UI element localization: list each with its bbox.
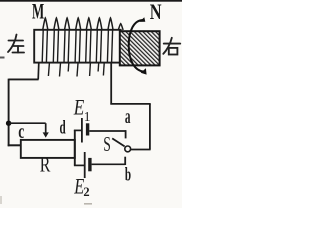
coil M core (rectangle) <box>34 30 121 63</box>
label 左 (left) <box>8 35 24 53</box>
scan smudges <box>84 203 92 205</box>
svg-text:N: N <box>150 0 162 24</box>
label 右 (right) <box>163 38 180 55</box>
svg-text:2: 2 <box>83 185 89 199</box>
contact a stub <box>125 130 127 138</box>
svg-text:b: b <box>125 165 131 186</box>
svg-text:S: S <box>103 132 111 156</box>
svg-text:R: R <box>40 153 51 177</box>
wire: bus from d up to E1 and down to E2 <box>74 130 76 166</box>
coil M winding stubs below core <box>48 63 104 77</box>
wire: bus to E2 left plate <box>74 164 84 166</box>
wire: coil M left end down <box>37 63 40 80</box>
wire: to rheostat left terminal c <box>8 144 21 146</box>
battery E1 <box>82 118 89 143</box>
wire: left vertical run <box>8 79 10 147</box>
svg-text:M: M <box>32 0 44 24</box>
svg-text:c: c <box>18 121 24 143</box>
battery E2 <box>85 152 92 178</box>
wire: E1 to contact a <box>89 130 126 132</box>
svg-text:a: a <box>125 106 131 128</box>
wire: right vertical riser <box>149 104 151 150</box>
wire: wiper feed horizontal <box>9 122 46 124</box>
coil N block (hatched) <box>120 31 160 65</box>
svg-text:d: d <box>60 119 67 139</box>
junction dot <box>6 121 11 126</box>
switch S pivot <box>125 146 131 152</box>
top border line <box>0 0 182 2</box>
coil M winding lines through core <box>42 30 112 63</box>
wire: horizontal to left side <box>9 78 39 80</box>
wire: bus to E1 left plate <box>74 129 82 131</box>
wire: E2 to contact b <box>92 163 126 165</box>
wire: coil M right end down <box>110 63 112 105</box>
wire: pivot to right corner <box>131 149 151 151</box>
wire: top horizontal to coil M right end <box>110 103 150 105</box>
rotation arrow around N <box>129 17 147 74</box>
stray tick left margin <box>0 57 5 59</box>
contact b stub <box>124 157 126 165</box>
coil M winding arches <box>43 18 123 30</box>
wiper arrow onto rheostat <box>43 123 49 137</box>
rheostat R body <box>21 140 75 158</box>
svg-text:1: 1 <box>84 109 91 124</box>
switch S lever <box>112 138 124 146</box>
